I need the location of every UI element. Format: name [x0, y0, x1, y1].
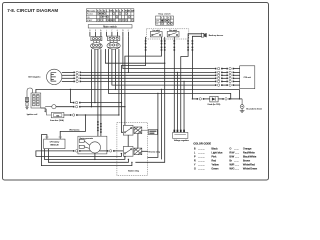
- bus 2: [44, 149, 125, 160]
- CDI unit: [240, 66, 255, 89]
- svg-text:......: ......: [235, 163, 240, 166]
- RL2 label: [142, 150, 160, 153]
- ground chain: [192, 98, 242, 100]
- wire coil bottom: [41, 108, 46, 113]
- stop switch table: [156, 12, 174, 25]
- main switch connection table: [86, 9, 135, 22]
- wire right mid 2: [160, 89, 162, 159]
- starter generator: [78, 136, 107, 154]
- svg-text:W/R: W/R: [229, 162, 234, 166]
- buzzer drop connectors: [187, 40, 189, 44]
- wire row6: [112, 49, 215, 85]
- svg-text:..........: ..........: [198, 148, 205, 151]
- wire m7: [123, 36, 215, 68]
- svg-text:Fuse box (10A): Fuse box (10A): [50, 119, 64, 122]
- wires from main switch: [90, 32, 128, 37]
- svg-text:P: P: [194, 155, 196, 159]
- color code legend: [193, 142, 257, 171]
- chain1: [70, 89, 122, 103]
- diode: [208, 96, 221, 106]
- svg-text:.......: .......: [234, 160, 239, 163]
- relay RL1 switch: [123, 125, 133, 135]
- switch S2: [167, 29, 179, 37]
- bundle wire b5: [108, 49, 230, 99]
- buzzer wires: [181, 34, 202, 99]
- node m8-r2: [128, 72, 129, 73]
- svg-text:G: G: [194, 166, 196, 170]
- svg-text:Br: Br: [229, 159, 232, 163]
- svg-text:Voltage regulator: Voltage regulator: [174, 139, 189, 142]
- ground to frame: [240, 99, 262, 113]
- svg-text:Stop switch: Stop switch: [158, 12, 171, 15]
- wire VR pin3: [180, 56, 182, 129]
- main switch wire color labels: [89, 30, 129, 32]
- svg-text:B: B: [161, 17, 162, 19]
- svg-text:ON: ON: [156, 24, 158, 26]
- svg-text:Orange: Orange: [243, 147, 252, 151]
- connector block A (rect): [91, 37, 102, 41]
- bundle wire b7: [114, 49, 116, 89]
- RL1 connector label: [142, 130, 158, 135]
- svg-text:Wire harness: Wire harness: [69, 129, 79, 132]
- coil feed row: [70, 89, 71, 90]
- svg-text:START: START: [87, 19, 92, 22]
- relay enclosure (dashed): [117, 122, 147, 175]
- svg-text:COLOR CODE: COLOR CODE: [193, 142, 211, 146]
- svg-text:..........: ..........: [198, 156, 205, 159]
- relay RL1 coil: [134, 127, 142, 134]
- bus 1: [36, 154, 122, 157]
- harness wire: [60, 114, 86, 136]
- svg-text:Br: Br: [103, 10, 105, 12]
- bundle wire b3: [97, 49, 99, 136]
- switch drop d1: [121, 37, 145, 132]
- switch drop d3: [135, 37, 164, 162]
- svg-text:Green: Green: [211, 166, 219, 170]
- wire elbow row: [105, 49, 164, 63]
- svg-text:7-8. CIRCUIT DIAGRAM: 7-8. CIRCUIT DIAGRAM: [7, 8, 58, 13]
- fuse box: [46, 109, 64, 122]
- relay RL2 switch: [123, 147, 133, 157]
- generator bottom wire: [94, 153, 96, 159]
- connector block B (rect): [107, 36, 119, 40]
- svg-text:Back-up buzzer: Back-up buzzer: [209, 34, 224, 37]
- svg-text:..........: ..........: [198, 152, 205, 155]
- wire VR pin4: [183, 81, 185, 129]
- ignition coil: [27, 93, 41, 116]
- wire m8: [127, 36, 129, 72]
- bundle wire b4: [100, 49, 102, 136]
- wire VR pin2: [176, 72, 178, 129]
- svg-text:White/Red: White/Red: [243, 162, 255, 166]
- svg-text:White/Green: White/Green: [243, 166, 258, 170]
- bus 3: [48, 149, 128, 163]
- svg-text:Brown: Brown: [243, 159, 251, 163]
- switch S1: [150, 29, 162, 37]
- svg-text:Black: Black: [211, 147, 218, 151]
- svg-text:Position: Position: [87, 13, 93, 16]
- wire coil top to bus: [36, 89, 240, 93]
- svg-text:Reverse relay: Reverse relay: [148, 150, 160, 153]
- wire row1 to CDI: [233, 68, 240, 70]
- fuse chain: [64, 114, 119, 116]
- bundle wire b1: [90, 49, 92, 107]
- magneto row wires: [62, 71, 240, 82]
- svg-text:W: W: [128, 10, 130, 12]
- generator left wire: [36, 150, 91, 157]
- svg-text:12V battery: 12V battery: [50, 141, 60, 144]
- svg-text:..........: ..........: [198, 160, 205, 163]
- svg-text:..........: ..........: [198, 163, 205, 166]
- battery: [44, 136, 65, 148]
- connector B (oval): [107, 41, 120, 50]
- main switch box: [88, 25, 132, 29]
- svg-text:B: B: [194, 147, 196, 151]
- svg-text:Light blue: Light blue: [211, 151, 223, 155]
- bundle wire b8: [118, 49, 120, 115]
- svg-text:Wire color: Wire color: [87, 10, 96, 12]
- svg-text:Red/White: Red/White: [243, 151, 255, 155]
- CDI magneto: [28, 69, 62, 84]
- svg-text:Diode (for YPB): Diode (for YPB): [208, 104, 221, 106]
- svg-text:..........: ..........: [198, 167, 205, 170]
- voltage regulator: [173, 130, 190, 142]
- svg-text:Starter relay: Starter relay: [128, 169, 139, 172]
- svg-text:CDI magneto: CDI magneto: [28, 76, 41, 79]
- svg-text:.......: .......: [234, 148, 239, 151]
- chain2: [56, 106, 125, 108]
- switch drop d2: [125, 37, 162, 126]
- svg-text:......: ......: [235, 156, 240, 159]
- svg-text:GM10Z-3B: GM10Z-3B: [50, 144, 59, 146]
- svg-text:......: ......: [235, 167, 240, 170]
- svg-text:Yellow: Yellow: [211, 162, 218, 166]
- svg-text:Starter generator: Starter generator: [79, 137, 93, 140]
- svg-text:W/G: W/G: [229, 166, 234, 170]
- bundle wire b2: [94, 49, 96, 102]
- svg-text:Ignition coil: Ignition coil: [27, 113, 38, 116]
- connector A (oval): [91, 41, 103, 50]
- svg-text:R: R: [194, 159, 196, 163]
- svg-text:......: ......: [235, 152, 240, 155]
- svg-text:CDI unit: CDI unit: [244, 76, 252, 79]
- svg-text:Grounded to frame: Grounded to frame: [246, 107, 262, 110]
- svg-text:O: O: [229, 147, 231, 151]
- spark plug: [25, 88, 32, 109]
- svg-text:Main switch: Main switch: [103, 25, 117, 28]
- connector pair row1: [215, 67, 223, 69]
- svg-text:W: W: [116, 10, 118, 12]
- relay interconnects: [127, 135, 129, 146]
- back-up buzzer: [202, 33, 224, 38]
- generator right wire: [99, 150, 123, 152]
- svg-text:Black/White: Black/White: [243, 155, 257, 159]
- relay RL2 coil: [134, 148, 142, 155]
- bus 4: [41, 135, 131, 166]
- switch drop d4: [173, 37, 175, 130]
- connector circle: [45, 105, 56, 109]
- wire right mid 1: [147, 93, 158, 157]
- svg-text:Y: Y: [194, 162, 196, 166]
- svg-text:Red: Red: [211, 159, 216, 163]
- svg-text:Pink: Pink: [211, 155, 217, 159]
- svg-text:OFF: OFF: [156, 20, 159, 22]
- dashed switch enclosure: [146, 29, 188, 39]
